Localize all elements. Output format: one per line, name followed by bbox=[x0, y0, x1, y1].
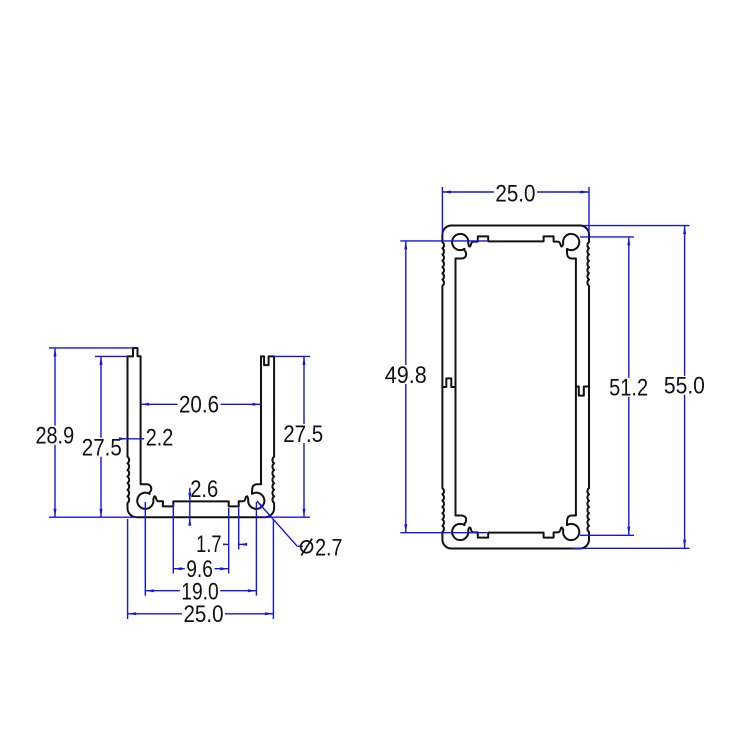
right view: bottom shell interior floor bbox=[452, 516, 579, 541]
svg-text:20.6: 20.6 bbox=[179, 392, 219, 419]
leader diameter 2.7 screw hole bbox=[257, 501, 297, 546]
dim 1.7 bbox=[223, 543, 229, 545]
svg-text:49.8: 49.8 bbox=[385, 362, 427, 389]
right view: inner wall left bbox=[455, 259, 457, 516]
dim 25.0 right view extension lines bbox=[441, 187, 443, 235]
left view: U-channel profile cross-section bbox=[128, 348, 275, 517]
dim 9.6 extension line bbox=[172, 504, 174, 574]
dim 25.0 (left view overall width) bbox=[128, 613, 274, 615]
svg-text:27.5: 27.5 bbox=[82, 435, 122, 462]
svg-text:55.0: 55.0 bbox=[664, 373, 705, 400]
right view: assembled enclosure outer outline bbox=[442, 226, 589, 549]
dim 28.9 (overall height, left view) bbox=[54, 348, 56, 517]
svg-text:1.7: 1.7 bbox=[196, 531, 221, 558]
dim 55.0 (overall height) bbox=[684, 226, 686, 549]
dim 27.5 right extension lines bbox=[274, 355, 310, 357]
dim 20.6 (inner width) bbox=[141, 403, 261, 405]
dim 51.2 bbox=[628, 237, 630, 535]
right view: inner wall right bbox=[575, 259, 577, 516]
dim 1.7 extension lines bbox=[228, 508, 230, 574]
svg-text:28.9: 28.9 bbox=[35, 423, 74, 450]
right view: seam joint right wall bbox=[576, 387, 589, 396]
dim 27.5 right bbox=[303, 356, 305, 517]
svg-text:2.2: 2.2 bbox=[146, 425, 174, 452]
dim 9.6 bbox=[173, 568, 228, 570]
right view: top shell interior floor (mirrored) bbox=[452, 234, 579, 259]
dim 49.8 (inner height) bbox=[405, 241, 407, 533]
svg-text:27.5: 27.5 bbox=[283, 421, 323, 448]
dim 55.0 extension lines bbox=[583, 225, 690, 227]
dim 51.2 extension lines bbox=[580, 236, 634, 238]
dim 25.0 extension lines (left view) bbox=[127, 519, 129, 619]
dim 49.8 extension lines bbox=[400, 240, 487, 242]
svg-text:25.0: 25.0 bbox=[184, 601, 224, 628]
dim 27.5 left bbox=[100, 356, 102, 517]
dim 19.0 extension lines bbox=[144, 502, 146, 596]
dim 2.2 (wall thickness) bbox=[120, 438, 146, 440]
right view: seam joint left wall bbox=[442, 378, 455, 387]
dim 19.0 bbox=[145, 590, 256, 592]
svg-text:25.0: 25.0 bbox=[495, 181, 535, 208]
dim 25.0 (right view width) bbox=[442, 191, 589, 193]
dim 2.6 (floor thickness) bbox=[189, 488, 191, 523]
dim 28.9 extension lines bbox=[49, 347, 133, 349]
svg-text:2.7: 2.7 bbox=[315, 535, 342, 562]
svg-text:51.2: 51.2 bbox=[609, 375, 648, 402]
svg-text:2.6: 2.6 bbox=[190, 476, 218, 503]
